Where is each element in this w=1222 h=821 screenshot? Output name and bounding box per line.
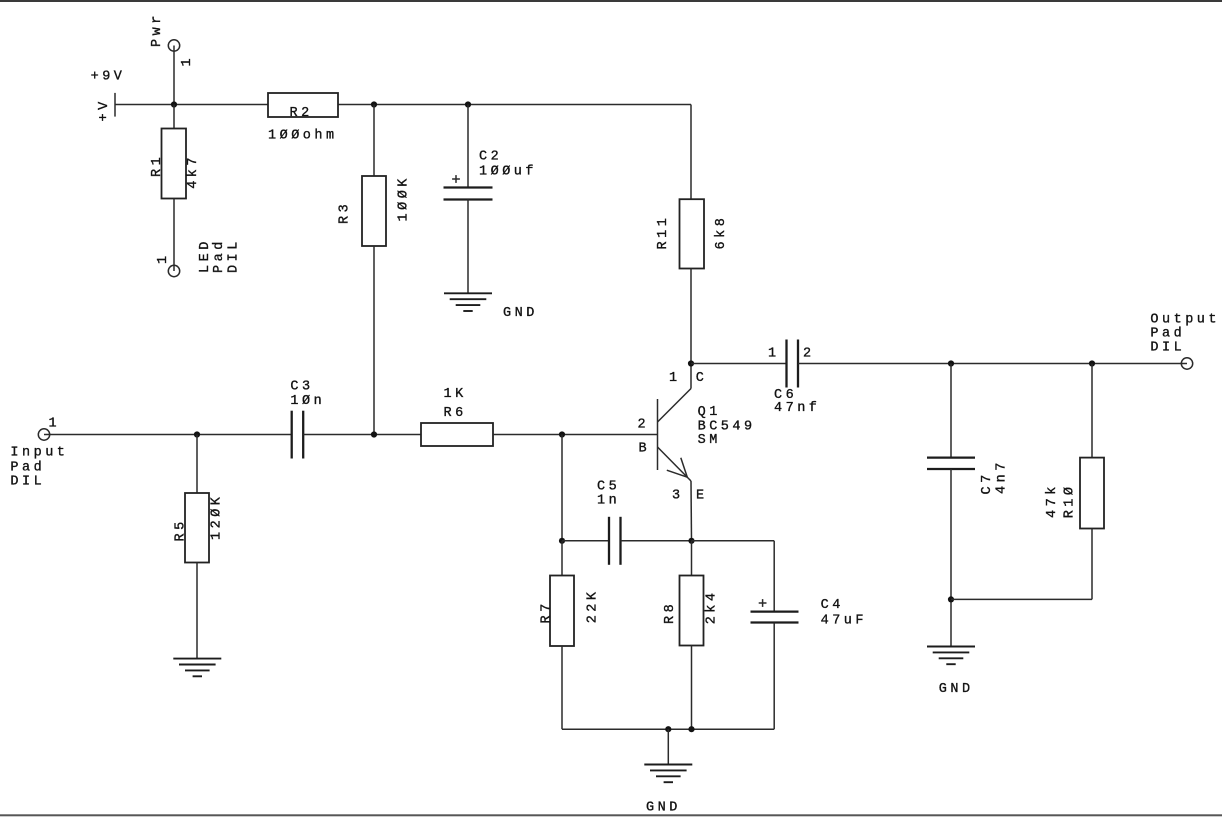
wire R7 bottom bbox=[561, 646, 563, 729]
svg-text:47nf: 47nf bbox=[774, 401, 820, 416]
svg-text:R1Ø: R1Ø bbox=[1063, 483, 1078, 518]
svg-text:R3: R3 bbox=[337, 201, 352, 224]
polarity + C4 bbox=[759, 602, 767, 604]
Q1 emitter arrow bbox=[681, 458, 688, 477]
wire C4 bottom bbox=[773, 623, 775, 730]
junction input/R5 bbox=[194, 431, 200, 437]
pad Pwr bbox=[168, 40, 179, 51]
svg-text:Output: Output bbox=[1150, 313, 1220, 328]
wire input rail bbox=[44, 434, 292, 436]
svg-text:1Øn: 1Øn bbox=[290, 394, 325, 409]
svg-text:1: 1 bbox=[156, 252, 171, 264]
junction base/C5 branch bbox=[559, 431, 565, 437]
resistor R5 bbox=[185, 493, 209, 563]
svg-text:R5: R5 bbox=[174, 518, 189, 541]
wire R8 bottom bbox=[691, 646, 693, 730]
resistor R11 bbox=[680, 199, 705, 268]
svg-text:SM: SM bbox=[698, 433, 721, 448]
svg-text:4n7: 4n7 bbox=[995, 459, 1010, 494]
svg-text:47k: 47k bbox=[1045, 483, 1060, 518]
svg-text:1: 1 bbox=[180, 55, 195, 67]
capacitor C3 bbox=[291, 411, 293, 459]
svg-text:3: 3 bbox=[672, 488, 684, 503]
wire C3 to R6 bbox=[303, 434, 421, 436]
junction power/C2 bbox=[465, 101, 471, 107]
resistor R7 bbox=[550, 576, 574, 647]
svg-text:GND: GND bbox=[939, 682, 974, 697]
power symbol +V bbox=[114, 93, 116, 117]
resistor R8 bbox=[680, 576, 704, 646]
svg-text:1: 1 bbox=[768, 347, 780, 362]
svg-text:DIL: DIL bbox=[226, 238, 241, 273]
pad LED bbox=[168, 265, 179, 276]
wire power rail right bbox=[338, 104, 691, 106]
wire C2 top bbox=[467, 105, 469, 188]
svg-text:1n: 1n bbox=[597, 494, 620, 509]
capacitor C7 bbox=[927, 456, 975, 458]
wire R7 top bbox=[561, 541, 563, 576]
Q1 emitter bbox=[658, 447, 692, 481]
capacitor C2 bbox=[444, 186, 493, 188]
svg-text:C4: C4 bbox=[821, 598, 844, 613]
svg-text:E: E bbox=[696, 488, 708, 503]
svg-text:22K: 22K bbox=[586, 588, 601, 623]
wire C5 left bbox=[562, 540, 609, 542]
wire R10 bottom bbox=[1091, 529, 1093, 600]
wire gnd stub bbox=[667, 729, 669, 764]
svg-text:DIL: DIL bbox=[10, 474, 45, 489]
wire R8 top bbox=[691, 541, 693, 576]
svg-text:1ØØohm: 1ØØohm bbox=[268, 128, 338, 143]
junction bottom right rail bbox=[948, 596, 954, 602]
polarity + C2 bbox=[452, 178, 460, 180]
svg-text:2k4: 2k4 bbox=[704, 589, 719, 624]
Q1 collector bbox=[658, 389, 692, 423]
svg-text:Pad: Pad bbox=[212, 238, 227, 273]
wire R11 top corner bbox=[690, 105, 692, 200]
wire R5 top bbox=[196, 435, 198, 494]
pad Input bbox=[38, 429, 49, 440]
wire C5 right bbox=[621, 540, 692, 542]
svg-text:DIL: DIL bbox=[1150, 340, 1185, 355]
svg-text:R8: R8 bbox=[663, 601, 678, 624]
svg-text:GND: GND bbox=[646, 800, 681, 815]
svg-text:47uF: 47uF bbox=[821, 614, 867, 629]
svg-text:GND: GND bbox=[503, 306, 538, 321]
capacitor C5 bbox=[608, 517, 610, 565]
wire C7 top bbox=[950, 364, 952, 458]
svg-text:C5: C5 bbox=[597, 480, 620, 495]
svg-text:+V: +V bbox=[97, 98, 112, 121]
resistor R1 bbox=[162, 129, 187, 199]
wire bottom rail bbox=[562, 728, 774, 730]
svg-text:+9V: +9V bbox=[91, 69, 126, 84]
wire C7 bottom bbox=[950, 469, 952, 647]
wire R11 bottom bbox=[690, 269, 692, 364]
svg-text:4k7: 4k7 bbox=[186, 154, 201, 189]
svg-text:6k8: 6k8 bbox=[714, 215, 729, 250]
pad Output bbox=[1181, 358, 1192, 369]
svg-text:C7: C7 bbox=[980, 471, 995, 494]
junction R10 bbox=[1089, 360, 1095, 366]
resistor R10 bbox=[1080, 458, 1104, 529]
junction C5 left bbox=[559, 538, 565, 544]
capacitor C6 bbox=[785, 340, 787, 388]
resistor R2 bbox=[268, 93, 338, 117]
junction collector node bbox=[688, 360, 694, 366]
wire R3 top bbox=[373, 105, 375, 177]
svg-text:R6: R6 bbox=[444, 406, 467, 421]
svg-text:C: C bbox=[696, 371, 708, 386]
svg-text:R11: R11 bbox=[656, 215, 671, 250]
svg-text:Pad: Pad bbox=[1150, 326, 1185, 341]
svg-text:R1: R1 bbox=[150, 154, 165, 177]
svg-text:12ØK: 12ØK bbox=[209, 494, 224, 540]
resistor R3 bbox=[362, 176, 386, 246]
wire R10 top bbox=[1091, 364, 1093, 458]
junction power/R1 bbox=[171, 101, 177, 107]
ground under C7 bbox=[927, 646, 975, 648]
ground under R5 bbox=[173, 658, 221, 660]
wire power rail left bbox=[115, 104, 268, 106]
junction R3/input rail bbox=[371, 431, 377, 437]
svg-text:B: B bbox=[639, 442, 651, 457]
resistor R6 bbox=[421, 423, 493, 446]
wire bottom right rail bbox=[951, 598, 1092, 600]
junction emitter row bbox=[688, 538, 694, 544]
svg-text:LED: LED bbox=[198, 238, 213, 273]
wire R3 bottom bbox=[373, 246, 375, 435]
svg-text:1K: 1K bbox=[444, 387, 467, 402]
transistor Q1 base bar bbox=[657, 399, 659, 470]
wire R5 bottom bbox=[196, 563, 198, 659]
capacitor C4 bbox=[751, 610, 799, 612]
wire collector to C6 bbox=[691, 363, 787, 365]
svg-text:Pad: Pad bbox=[10, 460, 45, 475]
svg-text:C3: C3 bbox=[290, 380, 313, 395]
svg-text:Pwr: Pwr bbox=[150, 12, 165, 47]
wire C4 top bbox=[773, 541, 775, 612]
wire C6 to output pad bbox=[798, 363, 1187, 365]
svg-text:Input: Input bbox=[10, 445, 68, 460]
svg-text:R2: R2 bbox=[290, 106, 313, 121]
junction power/R3 bbox=[371, 101, 377, 107]
wire R6 to base bbox=[493, 434, 658, 436]
svg-text:2: 2 bbox=[803, 347, 815, 362]
ground bottom bbox=[644, 764, 692, 766]
svg-text:Q1: Q1 bbox=[698, 405, 721, 420]
svg-text:1: 1 bbox=[49, 417, 61, 432]
ground under C2 bbox=[444, 292, 492, 294]
border frame bbox=[0, 0, 1222, 2]
svg-text:1: 1 bbox=[669, 371, 681, 386]
junction C7 bbox=[948, 360, 954, 366]
svg-text:R7: R7 bbox=[540, 600, 555, 623]
wire Pwr stub bbox=[173, 46, 175, 105]
wire R1 top bbox=[173, 105, 175, 129]
svg-text:BC549: BC549 bbox=[698, 419, 756, 434]
junction R8 bottom bbox=[688, 726, 694, 732]
svg-text:1ØØuf: 1ØØuf bbox=[479, 165, 537, 180]
wire C2 bottom bbox=[467, 200, 469, 294]
wire emitter row to C4 bbox=[692, 540, 775, 542]
svg-text:C2: C2 bbox=[479, 150, 502, 165]
wire down to C5 row bbox=[561, 435, 563, 541]
svg-text:1ØØK: 1ØØK bbox=[397, 175, 412, 221]
junction gnd stub bbox=[665, 726, 671, 732]
wire R1 bottom bbox=[173, 199, 175, 272]
svg-text:2: 2 bbox=[638, 418, 650, 433]
